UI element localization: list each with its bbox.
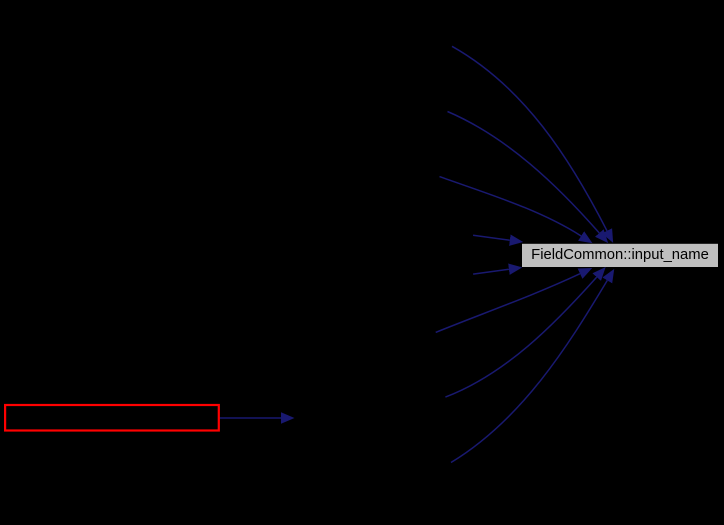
wire edge 2 [448,112,600,234]
wire edge 3 [440,177,582,236]
wire edge 6 [436,274,580,333]
svg-text:FieldCommon::input_name: FieldCommon::input_name [531,247,709,263]
wire edge 4 (straight upper) [473,235,510,240]
wire edge 1 (top caller curve) [452,46,607,231]
node FieldCommon::input_name (current node box) [522,244,718,267]
node truncated caller (red box) [5,405,219,431]
wire from truncated node [219,417,281,419]
wire edge 8 (bottom caller curve) [451,280,607,462]
wire edge 5 (straight lower) [473,269,509,274]
wire edge 7 [445,277,596,397]
